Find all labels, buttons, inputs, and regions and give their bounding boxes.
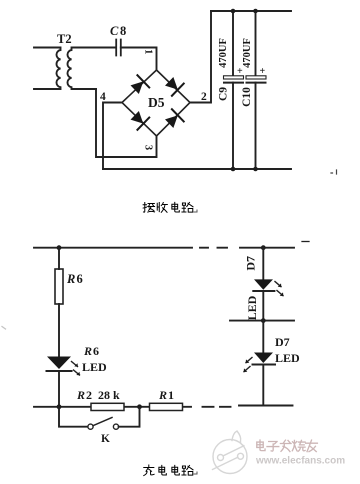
caption: receiving circuit 接收电路 (143, 202, 193, 212)
svg-text:LED: LED (82, 360, 107, 374)
resistor R6 lead top (58, 248, 60, 269)
svg-text:+: + (260, 66, 266, 77)
capacitor C8 plates (116, 40, 121, 56)
svg-text:LED: LED (275, 351, 300, 365)
stray dash top right (302, 241, 309, 243)
svg-text:T2: T2 (57, 32, 72, 46)
svg-text:C9: C9 (218, 87, 230, 101)
diode D5 bottom-left (129, 109, 149, 130)
watermark logo trace lines (213, 446, 244, 470)
caption: charging circuit 充电电路 (144, 465, 193, 476)
LED D7a cathode bar (253, 290, 274, 292)
faint speck left edge (2, 327, 6, 330)
svg-text:D7: D7 (275, 335, 290, 349)
LED D7b triangle (254, 353, 273, 364)
LED D7b cathode bar (253, 364, 276, 366)
svg-text:C10: C10 (241, 87, 253, 107)
stray speck after caption (194, 472, 197, 474)
wire node2 to top bus (190, 11, 211, 103)
svg-text:4: 4 (100, 91, 106, 103)
transformer T2 label (57, 32, 72, 46)
svg-text:470UF: 470UF (218, 38, 229, 68)
svg-text:R: R (83, 344, 92, 358)
switch K contact left (88, 424, 93, 429)
node 4 label (100, 91, 106, 103)
capacitor C9 plus sign (237, 66, 243, 77)
watermark logo circle (213, 440, 247, 474)
LED label R6 (83, 344, 99, 358)
bottom rail dashes (203, 406, 231, 408)
bottom rail right segment (239, 405, 293, 407)
svg-text:R: R (66, 272, 75, 286)
resistor R6 body (55, 269, 63, 304)
watermark logo pads (218, 455, 224, 461)
resistor R2 label (76, 388, 120, 402)
wire top rail to LED D7a (262, 248, 264, 280)
junction dot middle rail (261, 318, 266, 323)
svg-text:K: K (101, 433, 110, 445)
svg-text:3: 3 (143, 145, 154, 150)
stray speck .1 right side (331, 170, 337, 174)
watermark text 电子发烧友 (257, 440, 318, 452)
LED D7a arrows (275, 282, 283, 296)
D7 branch: vertical from top rail (261, 245, 266, 250)
D7a label (rotated) (244, 256, 258, 271)
wire middle rail to LED D7b (262, 321, 264, 353)
diode D5 top-right (163, 75, 183, 96)
wire C8 to node 1 (121, 48, 157, 71)
switch K label (101, 433, 110, 445)
capacitor C10 lead wires (255, 11, 257, 169)
svg-text:LED: LED (245, 295, 259, 320)
transformer T2 primary winding (34, 48, 61, 90)
watermark logo flame tip (232, 431, 244, 446)
wire R6 to LED D6 (58, 304, 60, 357)
LED D7a label (rotated) (245, 295, 259, 320)
LED D7b arrows (244, 358, 252, 372)
resistor R1 body (150, 403, 183, 410)
svg-text:8: 8 (120, 24, 126, 38)
svg-text:2: 2 (86, 388, 92, 402)
LED (R6) cathode bar (47, 370, 72, 372)
svg-text:D7: D7 (244, 256, 258, 271)
svg-text:6: 6 (77, 272, 83, 286)
capacitor C9 plates (224, 76, 244, 79)
junction dots bottom rail (57, 404, 142, 409)
node 3 label (143, 145, 154, 150)
switch K loop right (119, 407, 140, 427)
bridge rectifier D5 diamond (122, 70, 190, 136)
top rail right segment (D7 branch) (240, 247, 294, 249)
resistor R1 label (158, 388, 174, 402)
capacitor C8 label (110, 24, 126, 38)
stray speck after caption (194, 210, 197, 212)
capacitor C9 value 470UF (218, 38, 229, 68)
capacitor C10 plates (246, 76, 266, 79)
LED D7a triangle (254, 279, 273, 289)
capacitor C10 label (241, 87, 253, 107)
node 2 label (201, 91, 207, 103)
top rail left segment (34, 247, 192, 249)
LED (R6) arrows (72, 362, 80, 376)
bottom bus wire (103, 168, 291, 170)
LED label LED (82, 360, 107, 374)
svg-text:www.elecfans.com: www.elecfans.com (255, 456, 345, 467)
top bus wire (211, 10, 291, 12)
diode D5 top-left (129, 75, 149, 96)
svg-text:28 k: 28 k (98, 388, 120, 402)
wire LED to bottom rail (58, 371, 60, 407)
svg-text:470UF: 470UF (242, 38, 253, 68)
D5 label (148, 95, 165, 110)
wire node4 left and down to bottom bus (103, 103, 122, 170)
LED D7b label (275, 351, 300, 365)
svg-text:6: 6 (93, 344, 99, 358)
top rail dashes (200, 247, 227, 249)
svg-text:1: 1 (168, 388, 174, 402)
svg-text:D5: D5 (148, 95, 165, 110)
D7b label (275, 335, 290, 349)
capacitor C9 lead wires (232, 11, 234, 169)
svg-text:R: R (158, 388, 167, 402)
resistor R6 label (66, 272, 83, 286)
capacitor C9 label (218, 87, 230, 101)
junction dot left branch (57, 245, 62, 250)
capacitor C10 value 470UF (242, 38, 253, 68)
svg-text:2: 2 (201, 91, 207, 103)
switch K contact right (113, 424, 118, 429)
wire transformer bottom to node 3 (96, 89, 157, 157)
junction dots on buses (231, 9, 258, 172)
svg-text:C: C (110, 24, 119, 38)
switch K loop left (59, 407, 88, 427)
switch K blade (93, 418, 112, 426)
wire D7b to bottom rail (262, 365, 264, 406)
svg-text:R: R (76, 388, 85, 402)
middle rail (230, 320, 294, 322)
bottom rail left segment (34, 406, 191, 408)
resistor R2 body (91, 403, 124, 410)
svg-text:1: 1 (143, 49, 154, 54)
diode D5 bottom-right (163, 109, 183, 130)
capacitor C10 plus sign (260, 66, 266, 77)
wire D7a to middle rail (262, 291, 264, 321)
transformer T2 secondary winding (67, 48, 116, 90)
node 1 label (143, 49, 154, 54)
LED (R6) triangle (47, 357, 71, 370)
